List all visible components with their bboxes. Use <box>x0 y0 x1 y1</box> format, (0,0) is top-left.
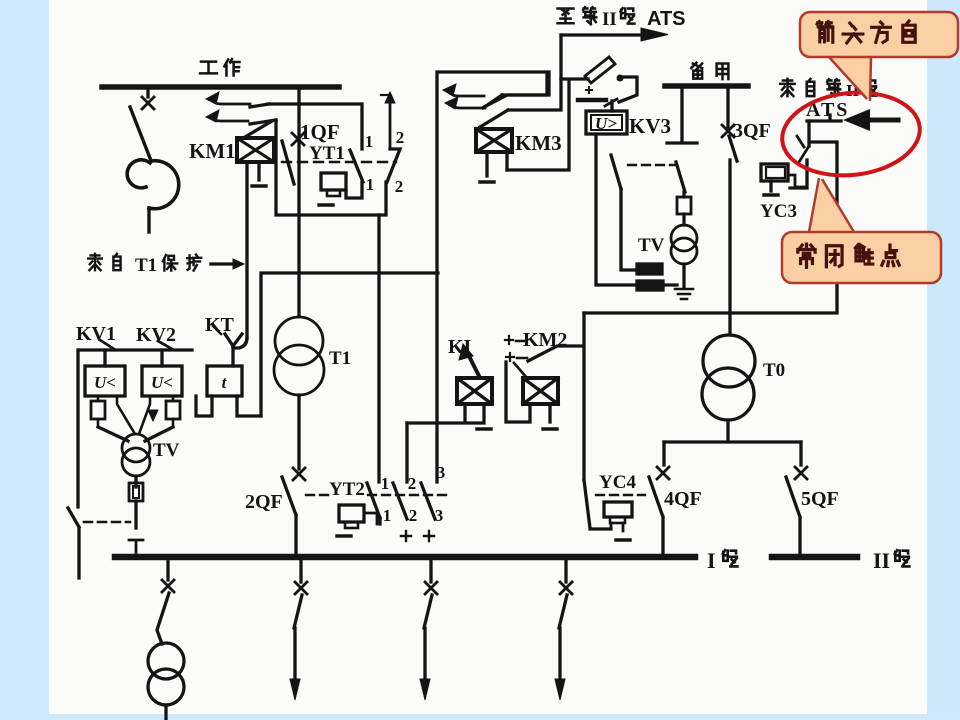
svg-text:U<: U< <box>151 373 173 392</box>
svg-text:KT: KT <box>205 314 235 336</box>
svg-text:3: 3 <box>435 506 444 525</box>
svg-text:2: 2 <box>408 474 417 493</box>
svg-text:KV2: KV2 <box>136 324 176 346</box>
svg-text:2: 2 <box>395 177 404 196</box>
svg-text:3: 3 <box>437 463 446 482</box>
svg-text:KM3: KM3 <box>515 131 562 155</box>
svg-text:3QF: 3QF <box>733 120 771 142</box>
svg-text:KI: KI <box>448 336 472 358</box>
svg-text:KM1: KM1 <box>189 139 236 163</box>
svg-text:1: 1 <box>383 506 392 525</box>
svg-text:U>: U> <box>595 114 617 133</box>
svg-text:T1: T1 <box>329 348 351 369</box>
svg-text:1: 1 <box>365 132 374 151</box>
svg-text:TV: TV <box>638 235 665 256</box>
svg-text:YT2: YT2 <box>329 479 365 500</box>
svg-text:YC4: YC4 <box>599 472 636 493</box>
svg-text:ATS: ATS <box>647 8 686 30</box>
svg-text:YT1: YT1 <box>309 143 345 164</box>
svg-text:T1: T1 <box>135 255 157 276</box>
svg-text:2: 2 <box>396 128 405 147</box>
svg-text:2: 2 <box>409 506 418 525</box>
svg-text:5QF: 5QF <box>801 488 839 510</box>
svg-text:2QF: 2QF <box>245 491 283 513</box>
svg-text:II: II <box>873 548 890 573</box>
svg-text:YC3: YC3 <box>760 201 797 222</box>
svg-text:1QF: 1QF <box>300 120 340 144</box>
svg-text:4QF: 4QF <box>664 488 702 510</box>
svg-text:U<: U< <box>94 373 116 392</box>
svg-text:KV3: KV3 <box>629 114 671 138</box>
svg-text:TV: TV <box>153 440 180 461</box>
svg-text:1: 1 <box>366 175 375 194</box>
svg-text:II: II <box>602 9 617 30</box>
svg-text:T0: T0 <box>763 360 785 381</box>
svg-text:KV1: KV1 <box>76 323 116 345</box>
svg-text:I: I <box>707 548 716 573</box>
svg-text:KM2: KM2 <box>523 329 567 351</box>
svg-text:1: 1 <box>381 474 390 493</box>
